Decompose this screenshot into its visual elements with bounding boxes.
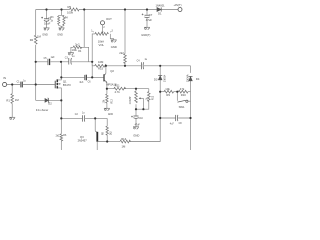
svg-text:1u: 1u [145, 59, 148, 61]
svg-text:Q2: Q2 [110, 69, 114, 73]
ground (under R3/R4 pair) [59, 28, 65, 31]
svg-text:D2: D2 [48, 102, 52, 106]
svg-text:9.1v Zener: 9.1v Zener [36, 108, 49, 112]
switch SW1 [176, 92, 178, 101]
svg-text:SW1: SW1 [179, 105, 185, 109]
node rail-R3R4 [60, 8, 62, 10]
node wiper-bottom [142, 108, 144, 110]
svg-text:1N914: 1N914 [163, 74, 166, 82]
svg-text:1uF: 1uF [51, 57, 56, 59]
svg-text:R12: R12 [153, 95, 155, 100]
resistor R11 4.7k [114, 87, 126, 90]
resistor R8 (vertical above bottom rail) [106, 126, 108, 135]
svg-text:C6: C6 [88, 81, 92, 83]
wire OUT stem to pot wiper [102, 25, 104, 30]
svg-text:2k2: 2k2 [119, 51, 124, 55]
node longrun-D3 [159, 65, 161, 67]
node comp-bottom [135, 108, 137, 110]
Q1 arrow [59, 83, 61, 85]
svg-text:4u7: 4u7 [170, 123, 175, 125]
svg-text:GND: GND [108, 114, 113, 116]
ground GND(T) (under C7) [144, 27, 150, 30]
node R7-longrun [124, 65, 126, 67]
svg-text:R14: R14 [121, 137, 127, 141]
svg-text:GND: GND [111, 45, 117, 49]
transistor Q1 BS170 [55, 79, 57, 88]
wire R3/R4 branch from rail [59, 10, 64, 28]
wire Q1 source lead [58, 88, 61, 101]
resistor R10 47k [178, 90, 188, 93]
svg-text:10M: 10M [98, 60, 104, 64]
wire top rail left segment [36, 9, 70, 11]
node leftline-mid [35, 61, 37, 63]
svg-text:OUT: OUT [106, 17, 112, 21]
wire zener run y=100.4 [36, 99, 62, 101]
svg-text:C8: C8 [179, 123, 183, 125]
svg-text:C2: C2 [75, 114, 79, 116]
svg-text:1N34A: 1N34A [186, 74, 189, 82]
transistor Q3 2N5457 [94, 118, 96, 130]
svg-text:R10: R10 [181, 93, 187, 97]
capacitor C10 47uF (electrolytic) [131, 116, 139, 119]
node mid-drain [60, 61, 62, 63]
wire right column (long run corner down) [190, 66, 192, 150]
svg-text:R11: R11 [115, 83, 120, 87]
svg-text:C5: C5 [44, 58, 48, 60]
capacitor C9 10uF (electrolytic) [41, 17, 49, 21]
svg-text:R15: R15 [98, 67, 104, 71]
diode D3 (vertical, cathode up) [158, 76, 162, 80]
node R9-R10-SW1 [176, 91, 178, 93]
wire left branch vertical (rail corner down to zener run) [35, 10, 37, 101]
svg-text:R2: R2 [30, 38, 34, 42]
svg-text:GND: GND [57, 34, 63, 37]
wire top rail right segment to +9V [161, 9, 178, 11]
svg-text:VOL: VOL [99, 43, 105, 47]
svg-text:GND: GND [42, 34, 48, 37]
wire x=84 branch (rail down to R4 node) [83, 10, 85, 48]
svg-text:1k: 1k [146, 97, 148, 100]
resistor R2 (vertical, left branch) [34, 35, 37, 44]
svg-text:IN: IN [3, 76, 6, 80]
node bottom-Q3 [94, 117, 96, 119]
node rail-C7 [146, 8, 148, 10]
ground (under R4) [68, 53, 74, 56]
svg-text:2k2: 2k2 [56, 136, 60, 138]
wire R12 top feed [148, 89, 150, 92]
svg-text:C4: C4 [137, 61, 141, 63]
node source-bottom [60, 117, 62, 119]
svg-text:3: 3 [112, 31, 114, 33]
wire D3 column [159, 66, 161, 92]
node mid-potleft [91, 61, 93, 63]
wire Q1 source continues to bottom node [60, 100, 62, 118]
node zener-source [60, 99, 62, 101]
svg-text:D4: D4 [196, 77, 200, 81]
svg-text:R3: R3 [51, 17, 55, 19]
+9V(T) terminal circle [178, 8, 182, 12]
wire R6 bottom to image edge [60, 141, 62, 150]
Q2 emitter arrow [105, 80, 107, 82]
ground (under R13) [104, 108, 110, 111]
wire R15 left lead tap [92, 62, 95, 66]
wire R12 bottom to comp node [136, 101, 149, 110]
wire long right run y=65.8 [106, 65, 191, 67]
ground (under C9) [44, 28, 50, 31]
svg-text:1M: 1M [122, 145, 127, 149]
capacitor C6 (coupling to Q2 base) [85, 75, 87, 81]
resistor R15 10M [95, 64, 107, 67]
svg-text:4.7k: 4.7k [115, 90, 121, 94]
ground (under C10) [133, 127, 139, 130]
output jack OUT circle [100, 21, 104, 25]
wire C9 branch vertical [46, 10, 48, 28]
node emitter-R13 [106, 88, 108, 90]
wire Q2 base lead [92, 76, 103, 78]
node input-R1 [11, 83, 13, 85]
wire R8 column down [106, 118, 108, 126]
wire pot right terminal to ground [110, 34, 113, 40]
svg-text:R5: R5 [68, 5, 72, 9]
node drain-wire [60, 76, 62, 78]
node comp-top [135, 88, 137, 90]
wire top rail middle segment [79, 9, 157, 11]
capacitor C8 (on bottom bus) [176, 115, 178, 121]
svg-text:1u: 1u [23, 81, 26, 83]
wire R4 left lead to ground [71, 47, 73, 52]
resistor R14 1M (horizontal) [120, 140, 131, 143]
node rail-x84 [83, 8, 85, 10]
svg-text:47k: 47k [180, 87, 185, 91]
svg-text:1u: 1u [82, 113, 85, 115]
transistor Q2 MPSA18 [105, 66, 107, 74]
input jack IN circle [3, 82, 7, 86]
resistor R12 (vertical, rotated labels) [148, 92, 151, 102]
resistor R1 1M (input to ground) [11, 85, 13, 94]
potentiometer COMP (vertical) [135, 89, 137, 92]
node D3-R9 [159, 91, 161, 93]
wire bottom bus y=118 [160, 117, 190, 119]
svg-text:100k: 100k [67, 11, 74, 15]
svg-text:C10: C10 [139, 118, 144, 120]
svg-text:2: 2 [103, 27, 105, 29]
node base-Q2 [91, 76, 93, 78]
wire Q1 drain lead [58, 62, 61, 80]
svg-text:R13: R13 [111, 98, 113, 103]
node leftline-gate [35, 83, 37, 85]
wire R7 column from rail [124, 10, 126, 66]
svg-text:100k: 100k [72, 50, 78, 52]
wire bottom mid y=118.4 [61, 117, 107, 119]
capacitor C1 (input, polarized) [21, 82, 23, 88]
wire C7 branch (supply filter) [146, 10, 148, 28]
svg-text:C1: C1 [17, 82, 21, 84]
svg-text:47uF: 47uF [146, 18, 153, 22]
wire emitter bus y=88.7 [107, 88, 149, 90]
svg-text:COMP: COMP [128, 96, 132, 104]
svg-text:GND: GND [133, 133, 139, 137]
node R15-Q2 [105, 65, 107, 67]
svg-text:1M: 1M [15, 98, 20, 102]
resistor R9 10k [160, 91, 164, 93]
svg-text:D3: D3 [154, 77, 158, 81]
svg-text:R4: R4 [78, 51, 82, 53]
resistor R6 2k2 (vertical to bottom edge) [60, 134, 63, 141]
capacitor C5 (polarized, on mid wire) [48, 59, 50, 65]
capacitor C2 (on bottom mid wire) [83, 115, 85, 121]
svg-text:R8: R8 [102, 131, 104, 135]
wire input jack to gate y=84.5 [7, 84, 55, 86]
svg-text:C3: C3 [65, 57, 69, 59]
ground (under R1) [9, 117, 15, 120]
diode D1 1N4001 [157, 7, 161, 11]
svg-text:47uF: 47uF [135, 125, 141, 127]
resistor R4 100k (horizontal, to ground) [73, 46, 81, 49]
potentiometer VOL 10kA element [95, 33, 109, 36]
svg-text:10k: 10k [104, 99, 106, 104]
svg-text:2n2: 2n2 [75, 42, 80, 46]
node bus-right [189, 117, 191, 119]
svg-text:D1: D1 [158, 12, 162, 16]
COMP wiper arrow [141, 97, 144, 99]
svg-text:R9: R9 [166, 93, 170, 97]
zener diode D2 9.1v [45, 98, 49, 103]
resistor R3 (left of pair) [58, 16, 60, 24]
svg-text:Q3: Q3 [80, 135, 84, 139]
node bus-left [159, 117, 161, 119]
svg-text:3u3: 3u3 [79, 82, 84, 84]
svg-text:1k: 1k [51, 20, 54, 22]
svg-text:2k2: 2k2 [110, 131, 112, 135]
resistor R13 (vertical to ground) [106, 89, 108, 94]
svg-text:1M: 1M [37, 35, 42, 39]
svg-text:C7: C7 [149, 13, 153, 17]
svg-text:10kA: 10kA [98, 39, 104, 43]
wire D3 column continues to bus [129, 92, 160, 142]
wire drain-coupling run y=77.4 [61, 76, 92, 78]
node rail-C9 [45, 8, 47, 10]
ground (VOL right terminal) [111, 40, 117, 43]
wire Q2 emitter lead down [106, 83, 108, 89]
wire Q3 leads [97, 142, 107, 151]
resistor R5 100k (inline on top rail) [70, 8, 79, 11]
potentiometer VOL 10kA wiper arrow [102, 30, 104, 32]
wire R4 right lead to mid wire [80, 47, 89, 62]
svg-text:2N5457: 2N5457 [78, 138, 88, 142]
svg-text:R6: R6 [63, 135, 67, 137]
diode D4 (vertical, cathode up) [189, 76, 193, 80]
capacitor C7 47uF (electrolytic) [142, 14, 150, 18]
svg-text:GND(T): GND(T) [141, 33, 150, 37]
svg-text:R4: R4 [65, 18, 69, 20]
svg-text:10k: 10k [165, 87, 170, 91]
capacitor C4 (on long run) [141, 62, 143, 69]
svg-text:1u: 1u [72, 56, 75, 58]
wire pot left terminal down [92, 34, 95, 78]
capacitor C3 (on mid wire) [69, 58, 72, 65]
wire bottom rail with R14 [107, 141, 120, 143]
resistor R7 2k2 (vertical) [124, 54, 127, 64]
svg-text:Q1: Q1 [63, 79, 67, 83]
node rail-R7 [124, 8, 126, 10]
wire mid horizontal y=61.8 (node A) [36, 61, 92, 63]
svg-text:1N4001: 1N4001 [156, 4, 166, 8]
svg-text:BS170: BS170 [63, 83, 71, 87]
node R8-bottom [106, 140, 108, 142]
svg-text:R1: R1 [6, 98, 10, 102]
pot terminal ticks [93, 31, 112, 32]
wire source column down to R6 [60, 118, 62, 133]
resistor R4a (right of pair) [63, 16, 65, 25]
svg-text:+9V(T): +9V(T) [174, 3, 182, 7]
